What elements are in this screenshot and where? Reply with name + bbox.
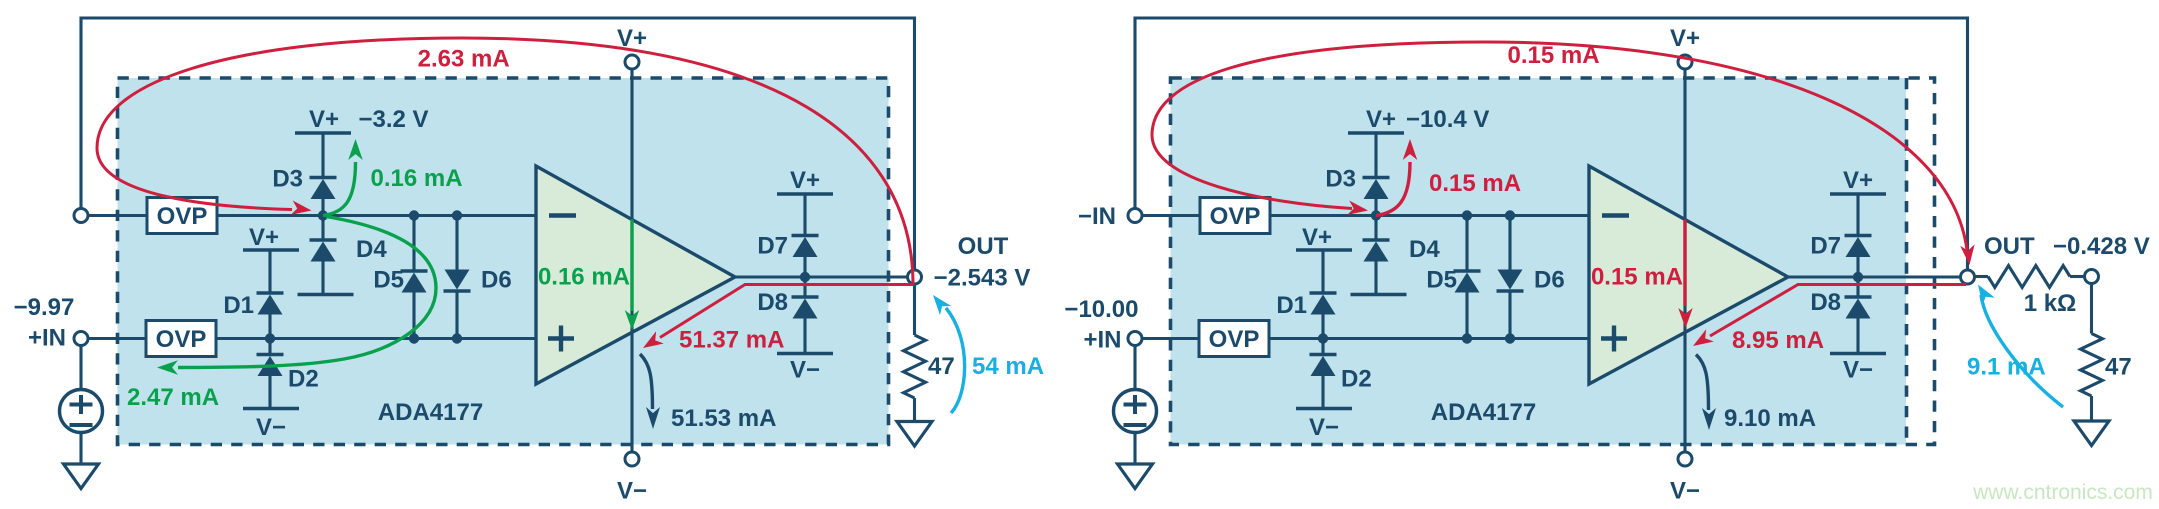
wire D5 stem (R) [1465, 216, 1468, 272]
svg-text:47: 47 [2105, 354, 2132, 381]
resistor 47 ohm load (L) [913, 284, 916, 335]
svg-text:D7: D7 [757, 233, 788, 260]
svg-text:0.15 mA: 0.15 mA [1591, 264, 1683, 291]
wire D1 stem (R) [1321, 250, 1324, 293]
svg-text:D2: D2 [288, 366, 319, 393]
ground under source (L) [64, 464, 99, 489]
svg-text:V+: V+ [1843, 167, 1873, 194]
svg-text:51.37 mA: 51.37 mA [679, 327, 784, 354]
svg-text:D6: D6 [1534, 267, 1565, 294]
wire +IN to source (R) [1133, 346, 1136, 391]
svg-text:D2: D2 [1341, 366, 1372, 393]
svg-text:OVP: OVP [1210, 203, 1261, 230]
svg-text:D4: D4 [356, 236, 387, 263]
current return 8.95 mA (red) (R) [1710, 285, 1966, 337]
svg-text:OVP: OVP [157, 203, 208, 230]
node D5 top (L) [409, 210, 419, 220]
ground under load resistor (L) [897, 422, 932, 447]
wire +IN to D2 (L) [268, 339, 271, 355]
node D6 bottom (R) [1505, 333, 1515, 343]
wire D4 to V- bar (R) [1374, 262, 1377, 295]
node +IN terminal (R) [1128, 332, 1142, 346]
current arc 9.1 mA from load (cyan) (R) [1981, 295, 2063, 407]
svg-text:V+: V+ [309, 106, 339, 133]
IC boundary dashed box (R) [1171, 78, 1907, 445]
diode D3 [1363, 178, 1390, 200]
wire feedback top rail (R) [1135, 18, 1968, 270]
current arc 54 mA from load (cyan) (L) [946, 308, 965, 413]
svg-text:ADA4177: ADA4177 [1431, 399, 1536, 426]
voltage source (L) [60, 390, 103, 433]
wire D8 to V- (R) [1856, 319, 1859, 354]
wire D1 to +IN (R) [1321, 315, 1324, 339]
svg-text:V−: V− [1843, 357, 1873, 384]
node output/D7 junction (L) [800, 272, 810, 282]
wire V+ rail vertical (R) [1683, 69, 1686, 452]
current arc 0.15 mA feedback (red) (R) [1152, 42, 1967, 250]
svg-text:1 kΩ: 1 kΩ [2024, 290, 2077, 317]
IC boundary dashed box (L) [118, 78, 889, 445]
node D6 top (R) [1505, 210, 1515, 220]
diode D4 [310, 240, 337, 262]
wire +IN line (L) [88, 337, 146, 340]
wire source to ground (R) [1133, 433, 1136, 465]
diode D2 [1310, 355, 1337, 377]
current arrow 0.16 mA through op-amp (green) (L) [630, 220, 633, 312]
op-amp plus input symbol (L) [548, 336, 574, 340]
wire D6 lower stem (L) [455, 291, 458, 339]
diode D2 [257, 355, 284, 377]
diode D1 [1310, 293, 1337, 315]
diode D7 [792, 236, 819, 258]
svg-text:D7: D7 [1810, 233, 1841, 260]
svg-text:−0.428 V: −0.428 V [2053, 233, 2150, 260]
diode D4 [1363, 240, 1390, 262]
wire +IN to D2 (R) [1321, 339, 1324, 355]
wire D5 lower stem (L) [412, 293, 415, 339]
V- rail bar below D4 (L) [298, 293, 354, 297]
wire D3 to node (L) [321, 199, 324, 216]
svg-text:0.15 mA: 0.15 mA [1429, 170, 1521, 197]
wire output (R) [1788, 275, 1961, 278]
node -IN/D3 junction (L) [318, 210, 328, 220]
wire D4 to V- bar (L) [321, 262, 324, 295]
current arrow 0.15 mA through D3 (red) (R) [1376, 162, 1410, 216]
OVP block upper (L) [147, 198, 217, 234]
resistor 47 ohm load (R) [2090, 284, 2093, 334]
svg-text:D3: D3 [272, 166, 303, 193]
current arrow 9.10 mA to V- (black) (R) [1696, 355, 1709, 411]
node D5 bottom (R) [1462, 333, 1472, 343]
ground under source (R) [1118, 464, 1153, 489]
svg-text:−10.00: −10.00 [1064, 296, 1138, 323]
diode D6 [1497, 270, 1524, 292]
resistor 1 kOhm (R) [1975, 275, 1989, 278]
wire D2 to V- (L) [268, 376, 271, 409]
op-amp plus input symbol (R) [1601, 336, 1627, 340]
svg-text:2.47 mA: 2.47 mA [127, 384, 219, 411]
V+ rail bar above D3 (R) [1348, 131, 1404, 135]
op-amp U1 ADA4177 (L) [536, 166, 735, 384]
wire D6 stem (L) [455, 216, 458, 270]
diode D7 [1845, 236, 1872, 258]
wire D3 stem (R) [1374, 133, 1377, 178]
node D5 bottom (L) [409, 333, 419, 343]
node V+ terminal (L) [625, 55, 639, 69]
wire node to D4 (R) [1374, 216, 1377, 241]
node -IN/D3 junction (R) [1371, 210, 1381, 220]
node -IN terminal (R) [1128, 209, 1142, 223]
svg-text:8.95 mA: 8.95 mA [1732, 327, 1824, 354]
diode D8 [792, 297, 819, 319]
diode D6 [444, 270, 471, 292]
svg-text:+IN: +IN [28, 325, 66, 352]
ground under load resistor (R) [2074, 421, 2109, 446]
OVP block lower (R) [1199, 321, 1269, 357]
svg-text:54 mA: 54 mA [972, 353, 1044, 380]
diode D3 [310, 178, 337, 200]
svg-text:V−: V− [1670, 478, 1700, 505]
svg-text:+IN: +IN [1083, 327, 1121, 354]
wire D5 lower stem (R) [1465, 293, 1468, 339]
wire feedback top rail (L) [81, 18, 915, 270]
op-amp minus input symbol (L) [549, 213, 576, 217]
svg-text:51.53 mA: 51.53 mA [671, 405, 776, 432]
node output/D7 junction (R) [1853, 272, 1863, 282]
svg-text:D8: D8 [757, 289, 788, 316]
svg-text:47: 47 [928, 353, 955, 380]
wire D1 stem (L) [268, 250, 271, 293]
node -IN terminal (L) [74, 209, 88, 223]
OVP block lower (L) [146, 321, 216, 357]
node V- terminal (R) [1678, 452, 1692, 466]
wire D2 to V- (R) [1321, 376, 1324, 409]
V- rail bar below D8 (L) [777, 352, 833, 356]
wire -IN line (R) [1142, 214, 1200, 217]
node +IN/D1 junction (R) [1318, 333, 1328, 343]
svg-text:D8: D8 [1810, 289, 1841, 316]
V+ rail bar above D7 (L) [777, 192, 833, 196]
wire output to D8 (R) [1856, 277, 1859, 297]
svg-text:V−: V− [1309, 414, 1339, 441]
svg-text:D5: D5 [373, 267, 404, 294]
node +IN terminal (L) [74, 332, 88, 346]
svg-text:D5: D5 [1426, 267, 1457, 294]
diode D5 [1454, 271, 1481, 293]
node after 1k resistor (R) [2085, 270, 2099, 284]
wire D3 to node (R) [1374, 199, 1377, 216]
V- rail bar below D2 (L) [243, 407, 299, 411]
svg-text:V+: V+ [790, 167, 820, 194]
wire D3 stem (L) [321, 133, 324, 178]
node OUT terminal (L) [908, 270, 922, 284]
node OUT terminal (R) [1961, 270, 1975, 284]
svg-text:2.63 mA: 2.63 mA [418, 46, 510, 73]
svg-text:D3: D3 [1325, 166, 1356, 193]
svg-text:0.16 mA: 0.16 mA [371, 165, 463, 192]
current arrow 51.53 mA to V- (black) (L) [640, 354, 653, 409]
V- rail bar below D2 (R) [1296, 407, 1352, 411]
wire D5 stem (L) [412, 216, 415, 272]
svg-text:V−: V− [617, 478, 647, 505]
svg-text:V+: V+ [1366, 106, 1396, 133]
wire D6 lower stem (R) [1508, 291, 1511, 339]
diode D5 [401, 271, 428, 293]
diode D8 [1845, 297, 1872, 319]
svg-text:−3.2 V: −3.2 V [359, 106, 429, 133]
current arc 2.63 mA feedback (red) (L) [97, 38, 913, 338]
wire D7 to output (L) [803, 257, 806, 277]
svg-text:OVP: OVP [1209, 326, 1260, 353]
wire output (L) [735, 275, 908, 278]
wire D7 stem (L) [803, 194, 806, 236]
wire D8 to V- (L) [803, 319, 806, 354]
svg-text:D6: D6 [481, 267, 512, 294]
svg-text:−10.4 V: −10.4 V [1406, 106, 1489, 133]
diode D1 [257, 293, 284, 315]
svg-text:V+: V+ [1670, 25, 1700, 52]
node V+ terminal (R) [1678, 55, 1692, 69]
svg-text:−IN: −IN [1078, 203, 1116, 230]
wire -IN line (L) [88, 214, 147, 217]
svg-text:V−: V− [790, 357, 820, 384]
svg-text:ADA4177: ADA4177 [378, 399, 483, 426]
svg-text:D4: D4 [1409, 236, 1440, 263]
current arrow 0.16 mA through D3 (green) (L) [323, 162, 356, 216]
svg-text:V+: V+ [249, 224, 279, 251]
svg-text:V+: V+ [1302, 224, 1332, 251]
wire D6 stem (R) [1508, 216, 1511, 270]
node +IN/D1 junction (L) [265, 333, 275, 343]
voltage source (R) [1114, 390, 1157, 433]
wire source to ground (L) [79, 433, 82, 465]
svg-text:OVP: OVP [156, 326, 207, 353]
svg-text:0.16 mA: 0.16 mA [538, 264, 630, 291]
node D5 top (R) [1462, 210, 1472, 220]
op-amp U2 ADA4177 (R) [1589, 166, 1788, 384]
svg-text:OUT: OUT [958, 233, 1009, 260]
svg-text:www.cntronics.com: www.cntronics.com [1972, 481, 2153, 504]
svg-text:V−: V− [256, 414, 286, 441]
OVP block upper (R) [1200, 198, 1270, 234]
wire +IN line (R) [1142, 337, 1199, 340]
wire node to D4 (L) [321, 216, 324, 241]
wire output to D8 (L) [803, 277, 806, 297]
node V- terminal (L) [625, 452, 639, 466]
current arc 2.47 mA out of +IN (green) (L) [178, 217, 436, 368]
svg-text:D1: D1 [1276, 292, 1307, 319]
wire D7 stem (R) [1856, 194, 1859, 236]
node D6 bottom (L) [452, 333, 462, 343]
current arrow 0.15 mA through op-amp (red) (R) [1683, 220, 1686, 307]
svg-text:D1: D1 [223, 292, 254, 319]
svg-text:OUT: OUT [1984, 233, 2035, 260]
wire +IN to source (L) [79, 346, 82, 391]
V- rail bar below D4 (R) [1351, 293, 1407, 297]
op-amp minus input symbol (R) [1602, 213, 1629, 217]
inner dashed line of right box [1905, 78, 1909, 445]
wire D1 to +IN (L) [268, 315, 271, 339]
node D6 top (L) [452, 210, 462, 220]
svg-text:−2.543 V: −2.543 V [934, 265, 1031, 292]
svg-text:9.1 mA: 9.1 mA [1967, 354, 2046, 381]
svg-text:−9.97: −9.97 [14, 294, 75, 321]
V+ rail bar above D3 (L) [295, 131, 351, 135]
svg-text:0.15 mA: 0.15 mA [1507, 42, 1599, 69]
V- rail bar below D8 (R) [1830, 352, 1886, 356]
wire V+ rail vertical (L) [630, 69, 633, 452]
wire D7 to output (R) [1856, 257, 1859, 277]
V+ rail bar above D7 (R) [1830, 192, 1886, 196]
svg-text:9.10 mA: 9.10 mA [1724, 405, 1816, 432]
